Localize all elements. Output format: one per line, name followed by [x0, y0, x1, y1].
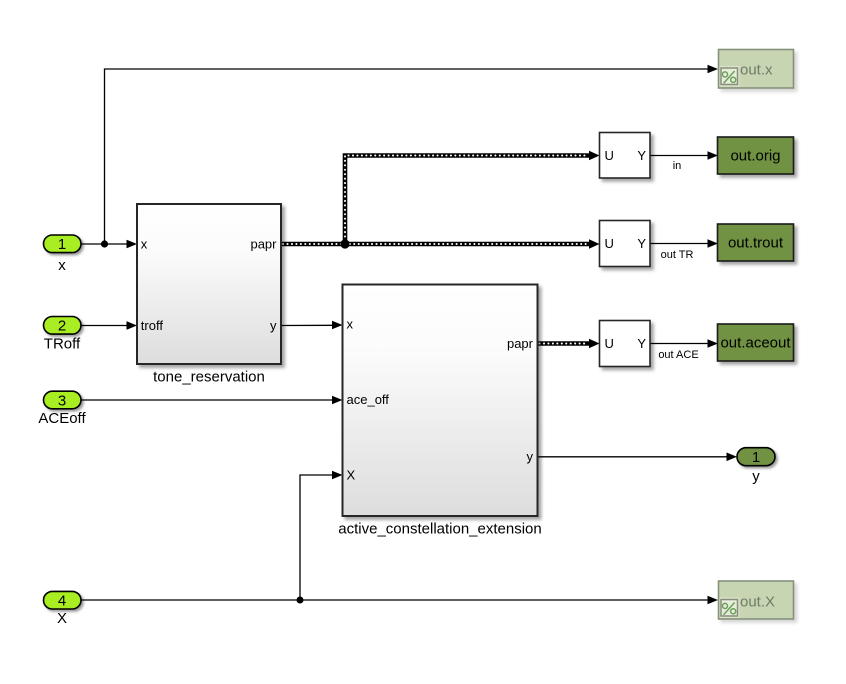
commented-out to-workspace block out.x: [719, 50, 794, 89]
subsystem active_constellation_extension: [338, 285, 541, 538]
inport 4 (X): [44, 591, 82, 627]
svg-text:2: 2: [58, 318, 66, 335]
outport 1 (y): [737, 448, 775, 485]
signal conversion block U/Y 2: [600, 221, 651, 267]
svg-text:3: 3: [58, 392, 66, 409]
to-workspace block out.aceout: [718, 324, 794, 361]
svg-text:y: y: [270, 318, 277, 333]
subsystem tone_reservation: [137, 204, 281, 386]
svg-text:troff: troff: [141, 318, 164, 333]
svg-text:out.trout: out.trout: [728, 235, 784, 252]
commented-out to-workspace block out.X: [719, 581, 794, 619]
signal conversion block U/Y 1: [600, 133, 651, 179]
svg-text:x: x: [58, 257, 66, 274]
junction node on X wire: [297, 597, 304, 604]
svg-text:Y: Y: [637, 236, 646, 251]
wire from inport 4 to out.X: [81, 596, 718, 605]
to-workspace block out.trout: [718, 224, 794, 261]
svg-text:TRoff: TRoff: [44, 336, 81, 353]
bus wire branch papr up to U/Y 1: [345, 151, 600, 244]
svg-text:U: U: [605, 148, 614, 163]
svg-text:out.X: out.X: [740, 594, 775, 611]
wire from inport 2 to troff input: [81, 321, 137, 330]
inport 2 (TRoff): [44, 317, 82, 353]
svg-text:ace_off: ace_off: [347, 392, 390, 407]
svg-text:papr: papr: [507, 336, 534, 351]
svg-text:Y: Y: [637, 148, 646, 163]
svg-text:y: y: [527, 449, 534, 464]
svg-text:out.aceout: out.aceout: [720, 335, 791, 352]
svg-text:active_constellation_extension: active_constellation_extension: [338, 521, 541, 538]
svg-text:papr: papr: [250, 236, 277, 251]
to-workspace block out.orig: [718, 137, 794, 174]
bus wire papr from ACE to U/Y 3: [538, 339, 600, 348]
svg-text:x: x: [141, 236, 148, 251]
svg-text:out TR: out TR: [661, 249, 694, 261]
inport 1 (x): [44, 235, 82, 274]
junction node on x wire: [101, 240, 108, 247]
svg-text:in: in: [673, 160, 682, 172]
signal conversion block U/Y 3: [600, 321, 651, 367]
svg-text:x: x: [347, 317, 354, 332]
wire tone_reservation y output to ACE x input: [281, 321, 343, 330]
svg-text:y: y: [752, 468, 760, 485]
svg-text:1: 1: [752, 449, 760, 466]
svg-text:4: 4: [58, 593, 66, 610]
svg-text:U: U: [605, 336, 614, 351]
wire U/Y 3 to out.aceout, label out ACE: [650, 339, 718, 361]
wire branch from X junction up to ACE X input: [300, 471, 343, 600]
wire from inport 3 to ace_off input: [81, 396, 343, 405]
wire U/Y 2 to out.trout, label out TR: [650, 239, 718, 261]
svg-text:out ACE: out ACE: [658, 349, 698, 361]
svg-text:X: X: [57, 610, 67, 627]
svg-text:X: X: [347, 468, 356, 483]
bus wire papr from tone_reservation to U/Y 2: [281, 239, 600, 248]
svg-text:tone_reservation: tone_reservation: [153, 369, 265, 386]
svg-text:ACEoff: ACEoff: [38, 410, 86, 427]
svg-text:out.x: out.x: [740, 62, 773, 79]
inport 3 (ACEoff): [38, 391, 86, 427]
wire ACE y output to outport y: [538, 453, 738, 462]
svg-text:Y: Y: [637, 336, 646, 351]
bus junction node on papr wire: [340, 239, 349, 248]
svg-text:1: 1: [58, 236, 66, 253]
svg-text:U: U: [605, 236, 614, 251]
wire U/Y 1 to out.orig, label in: [650, 151, 718, 172]
svg-text:out.orig: out.orig: [730, 148, 780, 165]
wire from inport 1 to tone_reservation x input: [81, 240, 137, 249]
wire branch from x junction up and right to out.x: [105, 65, 719, 244]
